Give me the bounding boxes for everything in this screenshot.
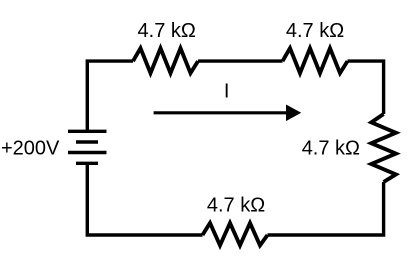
resistor R2 (top right, 4.7 kOhm) zigzag — [283, 48, 348, 73]
resistor R1 (top left, 4.7 kOhm) zigzag — [133, 48, 198, 73]
current arrow I (shaft) — [154, 111, 287, 114]
svg-text:4.7 kΩ: 4.7 kΩ — [207, 195, 265, 217]
current arrow I (head) — [286, 105, 301, 122]
resistor R3 (right side, vertical, 4.7 kOhm) zigzag — [371, 114, 396, 182]
svg-text:I: I — [224, 80, 230, 102]
wire: R2 to top-right corner down to R3 — [348, 61, 384, 114]
svg-text:4.7 kΩ: 4.7 kΩ — [138, 20, 196, 42]
resistor R4 (bottom, 4.7 kOhm) zigzag — [203, 223, 268, 245]
wire: battery + terminal up to top-left corner and right to R1 — [87, 61, 133, 131]
battery V1 (+200V source), plates long-short-long-short — [68, 131, 107, 163]
wire: R4 left to bottom-left corner and up to battery - terminal — [87, 163, 202, 235]
svg-text:4.7 kΩ: 4.7 kΩ — [286, 20, 344, 42]
wire: between R1 and R2 — [198, 59, 283, 62]
svg-text:4.7 kΩ: 4.7 kΩ — [302, 138, 360, 160]
wire: R3 down to bottom-right corner and left to R4 — [268, 182, 384, 235]
svg-text:+200V: +200V — [1, 138, 60, 160]
